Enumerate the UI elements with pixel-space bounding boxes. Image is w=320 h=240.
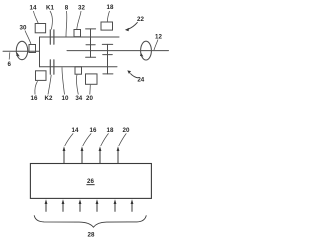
gear pair 2 stem — [107, 44, 109, 74]
svg-text:32: 32 — [78, 4, 85, 11]
gear pair 1 caps — [86, 29, 96, 57]
input arrow 6 — [131, 199, 134, 212]
actuator box 18 — [101, 22, 113, 30]
actuator box 16 — [36, 71, 47, 81]
leader 34 — [76, 75, 78, 95]
leader 12 — [154, 40, 158, 51]
input arrow 3 — [79, 199, 82, 212]
svg-text:30: 30 — [20, 25, 27, 32]
leader 32 — [77, 11, 81, 29]
svg-text:16: 16 — [31, 95, 38, 102]
svg-text:28: 28 — [88, 232, 95, 239]
output line to 18 — [99, 133, 109, 163]
input arrow 4 — [96, 199, 99, 212]
wire shaft 8 — [40, 36, 120, 38]
svg-text:6: 6 — [7, 61, 11, 68]
rotation arrow on engine ellipse — [16, 53, 20, 57]
wire engine input shaft — [3, 50, 40, 52]
wire shaft 10 — [40, 66, 118, 68]
svg-text:14: 14 — [72, 127, 79, 134]
svg-text:14: 14 — [30, 4, 37, 11]
clutch K2 — [50, 60, 54, 75]
svg-text:26: 26 — [87, 178, 94, 185]
leader 16 — [35, 81, 38, 94]
output line to 20 — [117, 133, 127, 163]
underline of 26 — [86, 184, 94, 186]
rotation arrow on wheel ellipse — [140, 53, 144, 57]
svg-text:20: 20 — [86, 95, 93, 102]
svg-text:18: 18 — [107, 4, 114, 11]
input arrow 5 — [114, 199, 117, 212]
leader 8 — [65, 11, 68, 37]
svg-text:22: 22 — [137, 16, 144, 23]
wire output shaft — [67, 50, 169, 52]
svg-text:20: 20 — [123, 127, 130, 134]
actuator box 14 — [35, 24, 45, 33]
clutch K1 — [50, 30, 54, 45]
svg-text:K2: K2 — [45, 95, 53, 102]
leader K1 — [50, 11, 52, 30]
engine flywheel ellipse 6 — [16, 41, 27, 59]
svg-text:12: 12 — [155, 33, 162, 40]
svg-text:16: 16 — [90, 127, 97, 134]
gear pair 1 stem — [90, 29, 92, 57]
arrow 22 — [125, 22, 138, 31]
control unit box 26 — [30, 164, 151, 199]
leader 14 — [34, 11, 39, 24]
svg-text:10: 10 — [62, 95, 69, 102]
leader 10 — [62, 67, 65, 94]
input arrow 1 — [45, 199, 48, 212]
wire clutch carrier vertical — [39, 37, 41, 67]
sensor box 32 — [74, 30, 81, 37]
leader 30 — [25, 31, 31, 45]
input arrow 2 — [62, 199, 65, 212]
svg-text:K1: K1 — [46, 4, 54, 11]
leader K2 — [48, 75, 51, 95]
leader 6 — [8, 52, 11, 59]
svg-text:8: 8 — [65, 4, 69, 11]
leader 18 — [107, 11, 109, 22]
gear pair 2 caps — [102, 44, 113, 74]
leader 20 — [89, 85, 92, 95]
wheel ellipse 12 — [141, 41, 152, 60]
arrow 24 — [127, 70, 138, 77]
brace 28 — [34, 215, 146, 227]
output line to 14 — [63, 133, 74, 163]
damper box 30 — [29, 45, 36, 53]
svg-text:24: 24 — [137, 76, 144, 83]
sensor box 34 — [75, 67, 82, 74]
output line to 16 — [81, 133, 92, 163]
svg-text:18: 18 — [107, 127, 114, 134]
actuator box 20 — [86, 74, 98, 84]
svg-text:34: 34 — [75, 95, 82, 102]
